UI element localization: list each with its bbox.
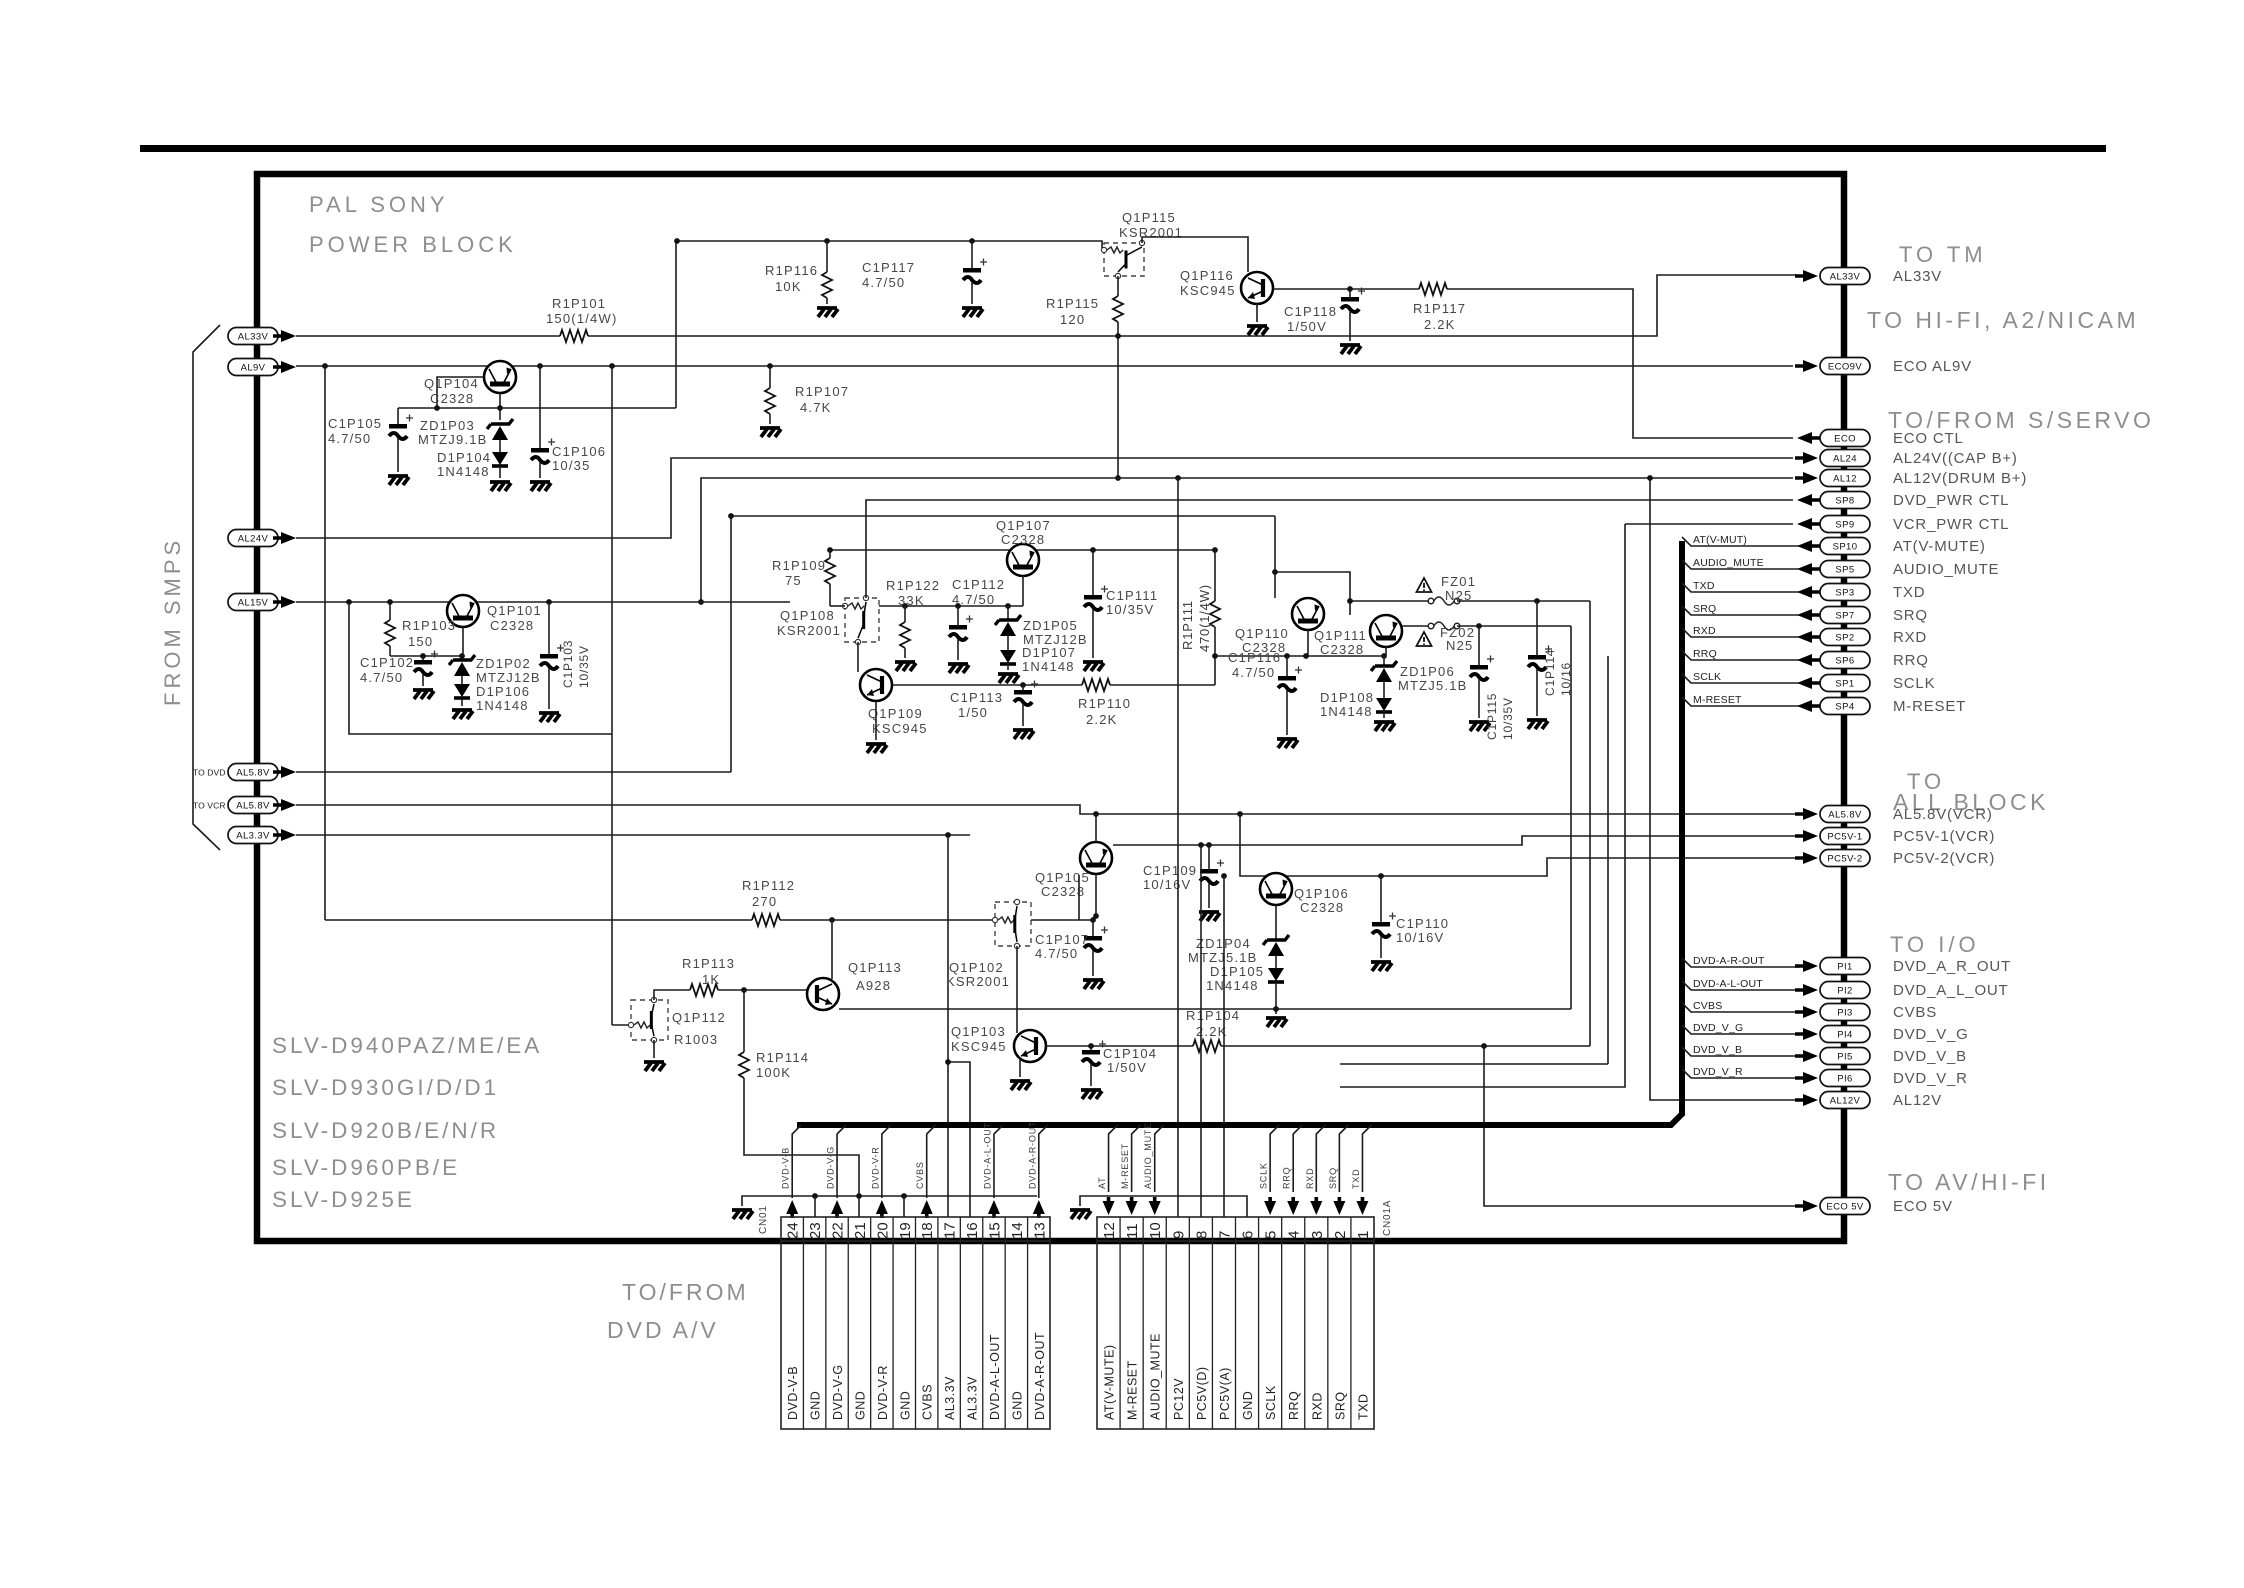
diode D1P108 bbox=[1383, 682, 1385, 698]
bus AT(V-MUT) trunk bbox=[797, 541, 1682, 1125]
capacitor C1P114 bbox=[1528, 646, 1552, 671]
svg-text:DVD-V-R: DVD-V-R bbox=[870, 1146, 880, 1189]
arrow arrow AL5.8V bbox=[1795, 808, 1818, 820]
wire CN01A gnd rail bbox=[1080, 1196, 1247, 1217]
diode D1P106 bbox=[461, 676, 463, 684]
wire PC5V-1 line bbox=[1113, 836, 1797, 845]
svg-text:4.7/50: 4.7/50 bbox=[952, 592, 995, 607]
capacitor C1P109 bbox=[1208, 845, 1210, 869]
resistor R1P110 bbox=[1082, 679, 1110, 691]
svg-text:PI2: PI2 bbox=[1837, 985, 1852, 996]
svg-text:TO HI-FI, A2/NICAM: TO HI-FI, A2/NICAM bbox=[1867, 307, 2139, 333]
wire ctl riser 3 bbox=[1607, 656, 1609, 1064]
svg-text:R1P110: R1P110 bbox=[1078, 696, 1131, 711]
capacitor C1P113 bbox=[1022, 685, 1024, 690]
svg-text:DVD_V_B: DVD_V_B bbox=[1893, 1048, 1967, 1065]
transistor Q1P109 bbox=[860, 669, 892, 701]
svg-text:C2328: C2328 bbox=[1300, 900, 1344, 915]
zener ZD1P04 bbox=[1275, 905, 1277, 940]
resistor R1P112 bbox=[752, 914, 780, 926]
warning mark FZ02 bbox=[1417, 632, 1432, 646]
svg-text:C2328: C2328 bbox=[1320, 642, 1364, 657]
warning mark FZ01 bbox=[1417, 578, 1432, 592]
wire CN01 pin 24 DVD-V-B bbox=[792, 1125, 801, 1198]
svg-text:1/50: 1/50 bbox=[958, 705, 988, 720]
svg-text:SRQ: SRQ bbox=[1893, 607, 1928, 624]
svg-text:C1P113: C1P113 bbox=[950, 690, 1003, 705]
svg-text:Q1P112: Q1P112 bbox=[672, 1010, 726, 1025]
svg-text:150: 150 bbox=[408, 634, 433, 649]
node label port SP6 bbox=[1820, 652, 1870, 669]
ground C1P112 bbox=[948, 664, 969, 673]
arrow arrow AL3.3V in bbox=[273, 829, 296, 841]
svg-text:12: 12 bbox=[1101, 1222, 1118, 1239]
arrow arrow AL33V bbox=[1795, 270, 1818, 282]
connector CN01A number row bbox=[1097, 1217, 1374, 1241]
svg-text:150(1/4W): 150(1/4W) bbox=[546, 311, 618, 326]
svg-text:SLV-D920B/E/N/R: SLV-D920B/E/N/R bbox=[272, 1118, 499, 1143]
svg-text:10K: 10K bbox=[775, 279, 802, 294]
capacitor C1P111 bbox=[1092, 550, 1094, 595]
ground C1P118 bbox=[1340, 345, 1361, 354]
svg-text:1N4148: 1N4148 bbox=[1022, 659, 1075, 674]
svg-text:SP1: SP1 bbox=[1835, 678, 1854, 689]
diode D1P104 bbox=[499, 440, 501, 452]
svg-text:KSC945: KSC945 bbox=[1180, 283, 1236, 298]
svg-text:DVD-V-G: DVD-V-G bbox=[831, 1364, 845, 1420]
capacitor C1P104 bbox=[1082, 1041, 1106, 1066]
svg-text:M-RESET: M-RESET bbox=[1693, 694, 1742, 706]
connector CN01A label row bbox=[1097, 1241, 1374, 1429]
capacitor C1P110 bbox=[1372, 913, 1396, 938]
arrow arrow AL33V in bbox=[273, 330, 296, 342]
svg-text:16: 16 bbox=[964, 1222, 981, 1239]
svg-text:AL12: AL12 bbox=[1833, 473, 1857, 484]
wire Q1P108 to Q1P109 bbox=[857, 642, 859, 672]
arrow arrow AL24 bbox=[1795, 452, 1818, 464]
wire AL24 rail bbox=[296, 458, 1793, 538]
svg-text:TXD: TXD bbox=[1693, 580, 1715, 592]
svg-text:R1P122: R1P122 bbox=[886, 578, 940, 593]
svg-text:8: 8 bbox=[1193, 1231, 1210, 1239]
capacitor C1P113 bbox=[1014, 681, 1038, 706]
wire ECO 5V feed bbox=[1484, 1046, 1800, 1206]
svg-text:C1P106: C1P106 bbox=[552, 444, 606, 459]
svg-text:Q1P103: Q1P103 bbox=[951, 1024, 1006, 1039]
capacitor C1P116 bbox=[1286, 656, 1288, 676]
svg-text:5: 5 bbox=[1263, 1231, 1280, 1239]
svg-text:ECO CTL: ECO CTL bbox=[1893, 430, 1964, 447]
arrow arrow SP4 bbox=[1797, 700, 1820, 712]
svg-text:SRQ: SRQ bbox=[1328, 1167, 1338, 1189]
svg-text:23: 23 bbox=[807, 1222, 824, 1239]
svg-text:DVD_A_R_OUT: DVD_A_R_OUT bbox=[1893, 958, 2011, 975]
node label port PC5V-1 bbox=[1820, 828, 1870, 845]
arrow arrow PI2 bbox=[1795, 984, 1818, 996]
svg-text:1N4148: 1N4148 bbox=[1206, 978, 1259, 993]
ground C1P117 bbox=[962, 308, 983, 317]
wire bus exit DVD-A-L-OUT bbox=[1682, 981, 1800, 990]
svg-text:C1P116: C1P116 bbox=[1228, 650, 1281, 665]
wire CN01 gnd rail bbox=[742, 1196, 1037, 1206]
svg-text:R1P109: R1P109 bbox=[772, 558, 826, 573]
svg-text:PC5V(A): PC5V(A) bbox=[1218, 1367, 1232, 1420]
svg-text:AL5.8V: AL5.8V bbox=[236, 767, 270, 778]
capacitor C1P116 bbox=[1278, 667, 1302, 692]
svg-text:SP9: SP9 bbox=[1835, 519, 1854, 530]
svg-text:18: 18 bbox=[919, 1222, 936, 1239]
resistor R1P113 bbox=[690, 984, 718, 996]
wire AL3.3V drops bbox=[947, 835, 949, 1217]
wire CN01A pin 1 TXD bbox=[1362, 1125, 1371, 1192]
svg-text:DVD_V_R: DVD_V_R bbox=[1893, 1070, 1968, 1087]
zener diode ZD1P05 bbox=[995, 615, 1021, 636]
wire Q1P105 base bbox=[1031, 919, 1093, 921]
svg-text:R1P104: R1P104 bbox=[1186, 1008, 1240, 1023]
wire Q1P108 base rail bbox=[830, 605, 845, 607]
svg-text:DVD-A-L-OUT: DVD-A-L-OUT bbox=[988, 1334, 1002, 1420]
svg-text:C1P111: C1P111 bbox=[1106, 588, 1158, 603]
svg-text:AL33V: AL33V bbox=[238, 331, 269, 342]
svg-text:20: 20 bbox=[874, 1222, 891, 1239]
svg-text:C1P103: C1P103 bbox=[561, 640, 575, 688]
wire Q1P116 emitter bbox=[1256, 304, 1258, 322]
svg-text:ECO 5V: ECO 5V bbox=[1826, 1201, 1864, 1212]
svg-text:4.7/50: 4.7/50 bbox=[1232, 665, 1275, 680]
svg-text:CVBS: CVBS bbox=[1693, 1000, 1722, 1012]
node label port AL12V bbox=[1820, 1092, 1870, 1109]
capacitor C1P115 bbox=[1470, 656, 1494, 681]
svg-text:4.7/50: 4.7/50 bbox=[1035, 946, 1078, 961]
svg-text:DVD-A-R-OUT: DVD-A-R-OUT bbox=[1027, 1121, 1037, 1189]
capacitor C1P117 bbox=[971, 241, 973, 268]
svg-text:1K: 1K bbox=[702, 972, 720, 987]
transistor Q1P105 bbox=[1080, 842, 1112, 874]
svg-text:10: 10 bbox=[1147, 1222, 1164, 1239]
wire AL5.8V DVD rail bbox=[296, 771, 731, 773]
capacitor C1P115 bbox=[1478, 626, 1480, 665]
svg-text:ZD1P02: ZD1P02 bbox=[476, 656, 531, 671]
svg-text:AT: AT bbox=[1097, 1177, 1107, 1189]
node label port ECO9V bbox=[1820, 358, 1870, 375]
capacitor C1P112 bbox=[957, 606, 959, 625]
wire SP9 riser bbox=[1340, 524, 1625, 1087]
svg-text:120: 120 bbox=[1060, 312, 1085, 327]
svg-text:TXD: TXD bbox=[1356, 1394, 1370, 1421]
svg-text:ECO9V: ECO9V bbox=[1828, 361, 1862, 372]
resistor R1P113 bbox=[654, 990, 690, 1000]
svg-text:DVD-V-R: DVD-V-R bbox=[876, 1365, 890, 1420]
svg-text:DVD_V_G: DVD_V_G bbox=[1693, 1022, 1743, 1034]
arrow arrow AL5.8V in bbox=[273, 799, 296, 811]
svg-text:M-RESET: M-RESET bbox=[1120, 1143, 1130, 1189]
capacitor C1P117 bbox=[963, 259, 987, 284]
svg-text:CVBS: CVBS bbox=[915, 1161, 925, 1189]
transistor Q1P108 (digital) bbox=[842, 595, 879, 644]
ground CN01 bbox=[732, 1210, 753, 1219]
resistor R1P109 bbox=[829, 550, 831, 558]
svg-text:Q1P111: Q1P111 bbox=[1314, 628, 1367, 643]
wire SP8 line bbox=[866, 500, 1793, 598]
node label input AL24V bbox=[228, 530, 278, 547]
node label input AL3.3V bbox=[228, 827, 278, 844]
wire PC5V(A) riser bbox=[1223, 876, 1225, 1217]
svg-text:Q1P110: Q1P110 bbox=[1235, 626, 1289, 641]
ground Q1P116 bbox=[1247, 326, 1268, 335]
node label port SP10 bbox=[1820, 538, 1870, 555]
svg-text:Q1P106: Q1P106 bbox=[1294, 886, 1349, 901]
svg-text:AL33V: AL33V bbox=[1893, 268, 1942, 285]
transistor Q1P106 bbox=[1260, 873, 1292, 905]
svg-text:470(1/4W): 470(1/4W) bbox=[1197, 584, 1212, 652]
svg-text:Q1P107: Q1P107 bbox=[996, 518, 1051, 533]
node label port SP1 bbox=[1820, 675, 1870, 692]
svg-text:10/35V: 10/35V bbox=[577, 645, 591, 688]
arrow arrow ECO9V bbox=[1795, 360, 1818, 372]
svg-text:SP4: SP4 bbox=[1835, 701, 1854, 712]
svg-text:R1P103: R1P103 bbox=[402, 618, 456, 633]
ground CN01A bbox=[1070, 1210, 1091, 1219]
arrow arrow AL12V bbox=[1795, 1094, 1818, 1106]
arrow arrow SP6 bbox=[1797, 654, 1820, 666]
svg-text:10/35V: 10/35V bbox=[1501, 697, 1515, 740]
svg-text:PC5V-2: PC5V-2 bbox=[1827, 853, 1862, 864]
wire CN01A pin 3 RXD bbox=[1316, 1125, 1325, 1192]
transistor Q1P110 bbox=[1292, 598, 1324, 630]
svg-text:SRQ: SRQ bbox=[1693, 603, 1716, 615]
svg-text:21: 21 bbox=[852, 1222, 869, 1239]
wire bus exit CVBS bbox=[1682, 1003, 1800, 1012]
svg-text:SCLK: SCLK bbox=[1259, 1162, 1269, 1189]
wire emitter rail 656 bbox=[1215, 655, 1386, 657]
svg-text:KSC945: KSC945 bbox=[872, 721, 928, 736]
svg-text:MTZJ9.1B: MTZJ9.1B bbox=[418, 432, 488, 447]
svg-text:4.7K: 4.7K bbox=[800, 400, 832, 415]
svg-text:AUDIO_MUTE: AUDIO_MUTE bbox=[1149, 1333, 1163, 1420]
ground D1P105 bbox=[1266, 1018, 1287, 1027]
svg-text:SCLK: SCLK bbox=[1264, 1385, 1278, 1420]
wire Q1P109 emitter rail bbox=[892, 684, 1082, 686]
svg-text:7: 7 bbox=[1216, 1231, 1233, 1239]
svg-text:AL5.8V: AL5.8V bbox=[236, 800, 270, 811]
svg-text:1/50V: 1/50V bbox=[1107, 1060, 1147, 1075]
svg-text:24: 24 bbox=[785, 1222, 802, 1239]
node label port SP3 bbox=[1820, 584, 1870, 601]
svg-text:DVD_A_L_OUT: DVD_A_L_OUT bbox=[1893, 982, 2009, 999]
svg-text:4: 4 bbox=[1286, 1231, 1303, 1239]
ground D1P107 bbox=[998, 674, 1019, 683]
capacitor C1P106 bbox=[539, 366, 541, 448]
svg-text:MTZJ5.1B: MTZJ5.1B bbox=[1188, 950, 1258, 965]
svg-text:13: 13 bbox=[1031, 1222, 1048, 1239]
wire CN01 pin 18 CVBS bbox=[927, 1125, 936, 1198]
arrow arrow AL12 bbox=[1795, 472, 1818, 484]
svg-text:TO TM: TO TM bbox=[1899, 242, 1987, 267]
ground D1P104 bbox=[490, 482, 511, 491]
wire bracket bbox=[193, 325, 220, 850]
svg-text:DVD-A-L-OUT: DVD-A-L-OUT bbox=[1693, 978, 1763, 990]
node label port PC5V-2 bbox=[1820, 850, 1870, 867]
svg-text:CVBS: CVBS bbox=[921, 1384, 935, 1420]
svg-text:C1P112: C1P112 bbox=[952, 577, 1005, 592]
wire CN01 pin 15 DVD-A-L-OUT bbox=[994, 1125, 1003, 1198]
svg-text:D1P105: D1P105 bbox=[1210, 964, 1264, 979]
capacitor C1P107 bbox=[1092, 920, 1094, 936]
wire bus exit M-RESET bbox=[1682, 697, 1800, 706]
svg-text:RRQ: RRQ bbox=[1693, 648, 1717, 660]
wire PC5V-2 line bbox=[1240, 814, 1797, 876]
svg-text:R1P101: R1P101 bbox=[552, 296, 606, 311]
transistor Q1P112 (digital) bbox=[628, 997, 668, 1042]
capacitor C1P111 bbox=[1084, 586, 1108, 611]
svg-text:C1P107: C1P107 bbox=[1035, 932, 1089, 947]
svg-text:AL33V: AL33V bbox=[1830, 271, 1861, 282]
svg-text:SP2: SP2 bbox=[1835, 632, 1854, 643]
svg-text:ECO AL9V: ECO AL9V bbox=[1893, 358, 1972, 375]
svg-text:PAL SONY: PAL SONY bbox=[309, 192, 449, 217]
wire Q1P102 to Q1P103 bbox=[1016, 946, 1018, 1033]
wire AL3.3V rail bbox=[296, 834, 970, 836]
svg-text:AL12V: AL12V bbox=[1893, 1092, 1942, 1109]
wire CN01A pin 12 AT bbox=[1109, 1125, 1118, 1192]
svg-text:KSR2001: KSR2001 bbox=[946, 974, 1010, 989]
diode D1P104 bbox=[492, 452, 508, 466]
svg-text:2.2K: 2.2K bbox=[1424, 317, 1456, 332]
svg-text:6: 6 bbox=[1240, 1231, 1257, 1239]
capacitor C1P118 bbox=[1341, 288, 1365, 313]
resistor R1P104 bbox=[1193, 1040, 1221, 1052]
wire Q1P107 collector rail bbox=[830, 549, 1215, 551]
ground C1P106 bbox=[530, 482, 551, 491]
svg-text:Q1P105: Q1P105 bbox=[1035, 870, 1090, 885]
arrow arrow ECO bbox=[1797, 432, 1820, 444]
svg-text:Q1P104: Q1P104 bbox=[424, 376, 479, 391]
node label port PI4 bbox=[1820, 1026, 1870, 1043]
arrow arrow SP10 bbox=[1797, 540, 1820, 552]
zener ZD1P06 bbox=[1383, 656, 1385, 666]
svg-text:DVD-A-R-OUT: DVD-A-R-OUT bbox=[1033, 1332, 1047, 1420]
svg-text:C1P110: C1P110 bbox=[1396, 916, 1449, 931]
node label port SP9 bbox=[1820, 516, 1870, 533]
wire Q1P104 base bbox=[437, 377, 483, 408]
svg-text:R1003: R1003 bbox=[674, 1032, 718, 1047]
svg-text:C1P117: C1P117 bbox=[862, 260, 915, 275]
wire bus exit AUDIO_MUTE bbox=[1682, 560, 1800, 569]
svg-text:RXD: RXD bbox=[1893, 629, 1927, 646]
svg-text:AL3.3V: AL3.3V bbox=[966, 1376, 980, 1420]
wire AL12 rail bbox=[701, 478, 1793, 602]
wire bus exit SCLK bbox=[1682, 674, 1800, 683]
svg-text:C1P114: C1P114 bbox=[1543, 649, 1557, 696]
wire Q1P112 ground bbox=[653, 1040, 655, 1058]
diode D1P107 bbox=[1000, 650, 1016, 664]
svg-text:R1P112: R1P112 bbox=[742, 878, 795, 893]
resistor R1P111 bbox=[1214, 550, 1216, 601]
svg-text:RXD: RXD bbox=[1693, 625, 1716, 637]
wire 5.8V DVD riser bbox=[731, 516, 1275, 772]
wire Q1P113 emitter line bbox=[839, 1008, 1571, 1010]
svg-text:10/16V: 10/16V bbox=[1396, 930, 1444, 945]
arrow arrow AL15V in bbox=[273, 596, 296, 608]
wire CN01 pin 20 DVD-V-R bbox=[882, 1125, 891, 1198]
node label port AL5.8V bbox=[1820, 806, 1870, 823]
svg-text:TO VCR: TO VCR bbox=[193, 801, 226, 811]
svg-text:SCLK: SCLK bbox=[1893, 675, 1935, 692]
transistor Q1P113 bbox=[807, 978, 839, 1010]
svg-text:KSC945: KSC945 bbox=[951, 1039, 1007, 1054]
wire R1P115 down bbox=[1117, 322, 1119, 478]
zener ZD1P05 bbox=[1007, 606, 1009, 620]
arrow arrow ECO 5V bbox=[1795, 1200, 1818, 1212]
svg-text:C1P118: C1P118 bbox=[1284, 304, 1337, 319]
svg-text:DVD-A-R-OUT: DVD-A-R-OUT bbox=[1693, 955, 1765, 967]
arrow arrow SP5 bbox=[1797, 563, 1820, 575]
capacitor C1P103 bbox=[548, 602, 550, 654]
svg-text:SRQ: SRQ bbox=[1333, 1391, 1347, 1420]
node label port SP7 bbox=[1820, 607, 1870, 624]
wire PC5V(D) riser bbox=[1200, 845, 1202, 1217]
svg-text:M-RESET: M-RESET bbox=[1893, 698, 1966, 715]
node label port AL12 bbox=[1820, 470, 1870, 487]
arrow arrow PC5V-2 bbox=[1795, 852, 1818, 864]
ground C1P104 bbox=[1081, 1090, 1102, 1099]
svg-text:DVD A/V: DVD A/V bbox=[607, 1317, 719, 1343]
wire CN01A pin 4 RRQ bbox=[1293, 1125, 1302, 1192]
svg-text:C1P102: C1P102 bbox=[360, 655, 414, 670]
svg-text:M-RESET: M-RESET bbox=[1126, 1360, 1140, 1420]
svg-text:ECO 5V: ECO 5V bbox=[1893, 1198, 1953, 1215]
wire AL12V oval feed bbox=[1650, 478, 1797, 1100]
connector CN01 number row bbox=[781, 1217, 1050, 1241]
svg-text:RRQ: RRQ bbox=[1893, 652, 1929, 669]
ground D1P108 bbox=[1374, 722, 1395, 731]
transistor Q1P101 bbox=[447, 595, 479, 627]
diode D1P105 bbox=[1275, 956, 1277, 968]
svg-text:D1P108: D1P108 bbox=[1320, 690, 1374, 705]
arrow arrow SP3 bbox=[1797, 586, 1820, 598]
svg-text:DVD_PWR CTL: DVD_PWR CTL bbox=[1893, 492, 2009, 509]
node label input AL9V bbox=[228, 359, 278, 376]
svg-text:AUDIO_MUTE: AUDIO_MUTE bbox=[1693, 557, 1764, 569]
svg-text:AL24: AL24 bbox=[1833, 453, 1857, 464]
svg-text:1N4148: 1N4148 bbox=[437, 464, 490, 479]
wire CN01 pin 22 DVD-V-G bbox=[837, 1125, 846, 1198]
capacitor C1P118 bbox=[1349, 289, 1351, 297]
svg-text:ECO: ECO bbox=[1834, 433, 1856, 444]
fuse FZ02 bbox=[1402, 625, 1431, 627]
svg-text:AL15V: AL15V bbox=[238, 597, 269, 608]
transistor Q1P116 bbox=[1241, 272, 1273, 304]
ground C1P111 bbox=[1083, 662, 1104, 671]
svg-text:MTZJ5.1B: MTZJ5.1B bbox=[1398, 678, 1468, 693]
arrow arrow PI3 bbox=[1795, 1006, 1818, 1018]
svg-text:1N4148: 1N4148 bbox=[476, 698, 529, 713]
svg-text:DVD-V-B: DVD-V-B bbox=[786, 1366, 800, 1420]
capacitor C1P102 bbox=[422, 656, 424, 660]
svg-text:Q1P116: Q1P116 bbox=[1180, 268, 1234, 283]
resistor R1P103 bbox=[389, 602, 391, 620]
svg-text:GND: GND bbox=[809, 1391, 823, 1420]
svg-text:1N4148: 1N4148 bbox=[1320, 704, 1373, 719]
capacitor C1P105 bbox=[389, 415, 413, 440]
svg-text:TO AV/HI-FI: TO AV/HI-FI bbox=[1888, 1169, 2050, 1195]
arrow arrow AL24V in bbox=[273, 532, 296, 544]
ground C1P109 bbox=[1199, 912, 1220, 921]
svg-text:SLV-D930GI/D/D1: SLV-D930GI/D/D1 bbox=[272, 1075, 499, 1100]
ground Q1P109 bbox=[866, 744, 887, 753]
ground C1P107 bbox=[1083, 980, 1104, 989]
svg-text:PI5: PI5 bbox=[1837, 1051, 1852, 1062]
